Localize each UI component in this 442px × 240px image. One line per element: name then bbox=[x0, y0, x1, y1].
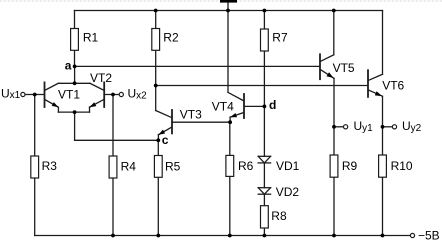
svg-text:VT2: VT2 bbox=[90, 71, 112, 85]
svg-text:VD2: VD2 bbox=[276, 185, 300, 199]
svg-text:R3: R3 bbox=[42, 159, 58, 173]
svg-text:R6: R6 bbox=[238, 159, 254, 173]
svg-text:c: c bbox=[162, 133, 169, 147]
svg-text:R8: R8 bbox=[271, 209, 287, 223]
svg-text:−5В: −5В bbox=[418, 228, 440, 240]
svg-text:R10: R10 bbox=[391, 159, 413, 173]
svg-text:VT4: VT4 bbox=[212, 99, 234, 113]
svg-text:R7: R7 bbox=[272, 30, 288, 44]
svg-text:Ux2: Ux2 bbox=[128, 87, 148, 102]
svg-text:VD1: VD1 bbox=[276, 159, 300, 173]
svg-text:VT1: VT1 bbox=[58, 87, 80, 101]
svg-text:R4: R4 bbox=[121, 159, 137, 173]
svg-text:R1: R1 bbox=[83, 30, 99, 44]
svg-text:VT3: VT3 bbox=[180, 107, 202, 121]
svg-text:d: d bbox=[269, 98, 276, 112]
svg-text:R9: R9 bbox=[342, 159, 358, 173]
svg-text:VT5: VT5 bbox=[333, 61, 355, 75]
svg-text:R5: R5 bbox=[165, 159, 181, 173]
svg-text:Uy2: Uy2 bbox=[402, 119, 422, 134]
svg-text:Uy1: Uy1 bbox=[354, 119, 374, 134]
svg-text:R2: R2 bbox=[163, 30, 179, 44]
svg-text:VT6: VT6 bbox=[382, 78, 404, 92]
svg-text:a: a bbox=[65, 59, 72, 73]
svg-text:Ux1: Ux1 bbox=[1, 86, 21, 101]
